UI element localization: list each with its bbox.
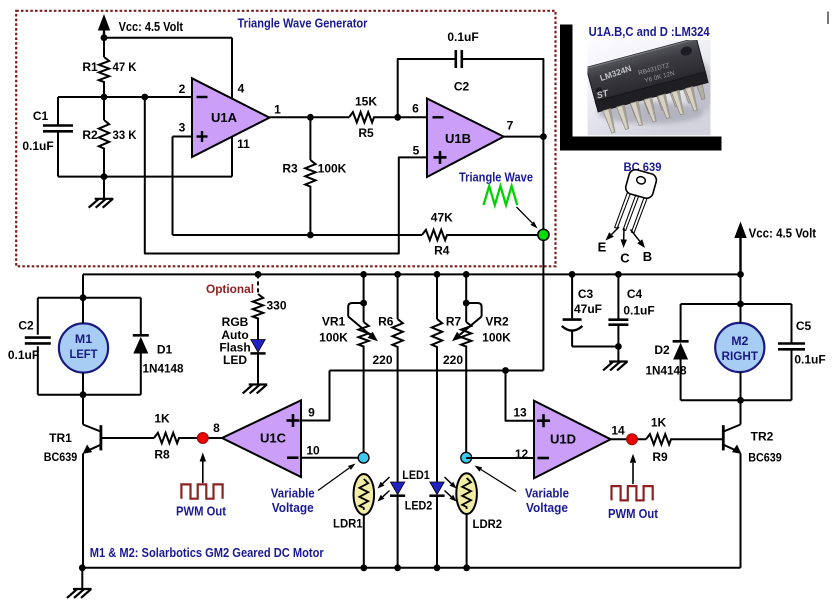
wire pin3 to feedback row — [173, 137, 193, 236]
svg-text:1N4148: 1N4148 — [143, 362, 184, 376]
svg-text:100K: 100K — [482, 331, 511, 345]
node 14 PWM (red) — [627, 434, 638, 445]
pin 8 — [213, 421, 220, 435]
node rail x=572.1 — [569, 271, 576, 278]
capacitor C2 0.1uF (feedback) — [398, 30, 544, 137]
node variable voltage left (cyan) — [358, 452, 369, 463]
diode D2 1N4148 — [646, 304, 689, 400]
svg-text:LDR1: LDR1 — [333, 517, 363, 531]
wire TR1 base — [101, 437, 222, 439]
label LED1 — [402, 468, 430, 482]
ground (C3/C4) — [604, 362, 627, 370]
svg-text:U1A.B,C and D :LM324: U1A.B,C and D :LM324 — [589, 24, 711, 39]
op-amp U1C — [222, 400, 301, 477]
node M1 top — [80, 294, 87, 301]
svg-text:E: E — [598, 240, 607, 255]
svg-text:R3: R3 — [282, 162, 298, 176]
node rail x=740.5 — [737, 271, 744, 278]
resistor R5 15K — [349, 95, 377, 141]
svg-text:220: 220 — [443, 353, 463, 367]
svg-text:220: 220 — [372, 353, 392, 367]
LDR1 — [354, 474, 375, 515]
svg-text:D1: D1 — [157, 343, 173, 357]
pin 3 — [179, 121, 186, 135]
svg-text:C2: C2 — [18, 318, 34, 332]
node pin7 — [540, 133, 547, 140]
svg-text:0.1uF: 0.1uF — [8, 348, 39, 362]
svg-text:Triangle Wave: Triangle Wave — [459, 171, 533, 185]
arrow to variable voltage node (right) — [475, 466, 517, 492]
node ground rail x=466.6 — [463, 564, 470, 571]
pin 5 — [413, 144, 420, 158]
svg-text:3: 3 — [179, 121, 186, 135]
pin 12 — [515, 447, 529, 461]
motor M1 LEFT — [59, 298, 108, 395]
wire optional dashed — [257, 274, 259, 294]
svg-text:LDR2: LDR2 — [473, 517, 503, 531]
resistor 330 — [253, 294, 287, 321]
node rail x=258 — [255, 271, 262, 278]
wire LDR1 bottom — [363, 515, 365, 568]
node variable voltage right (cyan) — [461, 452, 472, 463]
svg-text:U1D: U1D — [550, 432, 576, 447]
icon triangle wave (green) — [484, 186, 518, 205]
wire Vcc rail — [83, 273, 741, 275]
node Vcc/R1 — [101, 34, 108, 41]
svg-text:Variable: Variable — [271, 486, 315, 500]
node U1D pin13 tap — [502, 367, 509, 374]
svg-text:1: 1 — [274, 103, 281, 117]
arrow to variable voltage node (left) — [318, 464, 356, 491]
svg-text:R5: R5 — [358, 126, 374, 140]
op-amp U1A — [192, 78, 270, 157]
LDR2 — [456, 473, 477, 514]
svg-text:10: 10 — [306, 444, 320, 458]
svg-text:B: B — [643, 249, 652, 264]
node feedback tap — [141, 94, 148, 101]
icon PWM square wave (left) — [181, 484, 222, 498]
node rail x=437 — [434, 271, 441, 278]
node 8 PWM (red) — [197, 433, 208, 444]
svg-text:M1 & M2: Solarbotics GM2 Geare: M1 & M2: Solarbotics GM2 Geared DC Motor — [90, 546, 324, 560]
node rail x=466.2 — [463, 271, 470, 278]
pin 4 — [238, 82, 245, 96]
diode D1 1N4148 — [133, 298, 184, 395]
arrows into LDR2 — [445, 477, 457, 502]
arrows into LDR1 — [378, 477, 390, 502]
svg-text:C5: C5 — [796, 319, 812, 333]
svg-text:C3: C3 — [578, 287, 594, 301]
svg-text:0.1uF: 0.1uF — [22, 139, 53, 153]
transistor TR1 BC639 — [44, 395, 102, 568]
pin 10 — [306, 444, 320, 458]
svg-text:9: 9 — [308, 406, 315, 420]
wire M1 box top — [38, 297, 141, 299]
svg-text:14: 14 — [611, 424, 625, 438]
label LDR1 — [333, 517, 363, 531]
resistor R9 1K — [646, 415, 673, 464]
svg-text:R8: R8 — [154, 447, 170, 461]
wire ground run — [58, 176, 232, 178]
node ground rail x=363.8 — [360, 564, 367, 571]
label Triangle Wave — [459, 171, 533, 185]
svg-text:C2: C2 — [454, 80, 470, 94]
wire pin10 to LDR1 — [301, 457, 364, 459]
svg-text:6: 6 — [412, 102, 419, 116]
svg-text:TR2: TR2 — [751, 430, 774, 444]
svg-text:7: 7 — [507, 119, 514, 133]
IC photo (LM324 DIP-14) — [586, 38, 714, 135]
LED1 — [390, 482, 405, 568]
svg-text:Voltage: Voltage — [526, 501, 568, 515]
svg-text:C1: C1 — [33, 109, 49, 123]
potentiometer VR2 100K — [452, 274, 511, 457]
svg-text:R1: R1 — [82, 60, 98, 74]
potentiometer VR1 100K — [319, 274, 378, 457]
wire feedback to U1B pin5 — [145, 97, 427, 254]
svg-text:100K: 100K — [319, 331, 348, 345]
LED RGB auto flash — [250, 321, 265, 385]
resistor R7 220 — [432, 274, 464, 481]
node M2 top — [737, 301, 744, 308]
node M1 bottom — [80, 391, 87, 398]
svg-text:1K: 1K — [651, 415, 667, 429]
node triangle wave output (green) — [538, 229, 549, 240]
wire U1B output — [504, 137, 544, 371]
node rail x=363.6 — [360, 271, 367, 278]
black frame (photo) — [560, 25, 722, 151]
svg-text:M1: M1 — [75, 332, 92, 346]
svg-text:47K: 47K — [431, 211, 453, 225]
pin 1 — [274, 103, 281, 117]
pin 9 — [308, 406, 315, 420]
svg-text:VR2: VR2 — [485, 315, 509, 329]
node ground junction — [101, 173, 108, 180]
resistor R3 100K — [282, 117, 346, 235]
power Vcc 4.5V (left) — [98, 14, 184, 38]
node R3 bottom — [307, 232, 314, 239]
capacitor C4 0.1uF — [608, 274, 654, 361]
resistor R6 220 — [372, 274, 402, 481]
resistor R4 47K — [422, 211, 453, 258]
svg-text:LED2: LED2 — [405, 499, 433, 513]
resistor R1 47K — [82, 38, 136, 97]
icon PWM square wave (right) — [612, 486, 653, 500]
svg-text:5: 5 — [413, 144, 420, 158]
svg-text:VR1: VR1 — [322, 315, 346, 329]
node ground rail x=397.6 — [394, 564, 401, 571]
svg-text:33 K: 33 K — [113, 128, 137, 142]
transistor TR2 BC639 — [723, 400, 782, 568]
wire pin12 to LDR2 — [466, 457, 534, 459]
node C2/pin6 — [394, 114, 401, 121]
svg-text:TR1: TR1 — [49, 431, 72, 445]
svg-text:LEFT: LEFT — [70, 347, 98, 361]
svg-text:R4: R4 — [434, 244, 450, 258]
wire triangle wave row — [330, 370, 544, 372]
svg-text:Optional: Optional — [206, 282, 254, 296]
svg-text:0.1uF: 0.1uF — [623, 304, 654, 318]
svg-text:13: 13 — [513, 406, 527, 420]
svg-text:C: C — [620, 251, 630, 266]
label Variable Voltage (right) — [525, 486, 569, 515]
svg-text:BC639: BC639 — [44, 450, 78, 464]
svg-text:47uF: 47uF — [574, 302, 602, 316]
arrow to node 14 — [630, 454, 636, 484]
svg-text:Triangle Wave Generator: Triangle Wave Generator — [238, 16, 368, 31]
node rail x=397.6 — [394, 271, 401, 278]
svg-text:0.1uF: 0.1uF — [794, 353, 825, 367]
resistor R2 33K — [82, 97, 136, 177]
svg-text:330: 330 — [266, 299, 286, 313]
svg-text:47 K: 47 K — [113, 60, 137, 74]
resistor R8 1K — [154, 411, 181, 461]
svg-text:R6: R6 — [378, 315, 394, 329]
svg-text:D2: D2 — [654, 343, 670, 357]
svg-text:LED: LED — [223, 353, 247, 367]
pin 11 — [237, 137, 250, 151]
svg-text:8: 8 — [213, 421, 220, 435]
wire R4 row — [173, 234, 544, 236]
node C3/C4 — [615, 343, 622, 350]
svg-text:LED1: LED1 — [402, 468, 430, 482]
wire M2 box bottom — [681, 399, 792, 401]
node ground rail x=437 — [434, 564, 441, 571]
node ground rail x=82.3 — [79, 564, 86, 571]
op-amp U1D — [534, 401, 611, 479]
node M2 bottom — [737, 397, 744, 404]
label BC 639 — [624, 160, 662, 174]
svg-text:1N4148: 1N4148 — [646, 364, 687, 378]
wire M1 box bottom — [38, 394, 141, 396]
svg-text:Vcc: 4.5 Volt: Vcc: 4.5 Volt — [749, 226, 817, 241]
wire inverting input (pin2) — [58, 96, 192, 98]
svg-text:Vcc: 4.5 Volt: Vcc: 4.5 Volt — [119, 19, 184, 34]
arrow to node 8 — [200, 453, 207, 484]
label LED2 — [405, 499, 433, 513]
power Vcc 4.5V (right) — [734, 222, 816, 275]
svg-text:PWM Out: PWM Out — [176, 505, 227, 519]
wire Vcc to pin4 — [104, 38, 232, 99]
wire rail to M1 block — [82, 274, 84, 297]
pin 7 — [507, 119, 514, 133]
wire pin9 — [301, 371, 330, 421]
svg-text:U1B: U1B — [445, 131, 471, 146]
svg-text:4: 4 — [238, 82, 245, 96]
svg-text:R2: R2 — [82, 128, 98, 142]
label LDR2 — [473, 517, 503, 531]
label PWM Out (left) — [176, 505, 227, 519]
capacitor C2 0.1uF (across M1) — [8, 298, 51, 395]
wire Vcc to M2 — [740, 274, 742, 304]
svg-text:U1A: U1A — [211, 110, 238, 125]
svg-text:Voltage: Voltage — [272, 501, 314, 515]
transistor package BC639 (TO-92 drawing) — [614, 168, 657, 235]
title Triangle Wave Generator — [238, 16, 368, 31]
pin 14 — [611, 424, 625, 438]
wire pin11 to ground — [231, 137, 233, 177]
svg-text:M2: M2 — [731, 334, 748, 348]
svg-text:100K: 100K — [318, 162, 347, 176]
svg-text:11: 11 — [237, 137, 250, 151]
mark (top-right artifact) — [827, 12, 829, 25]
label motors note — [90, 546, 324, 560]
node rail x=618.4 — [615, 271, 622, 278]
svg-text:1K: 1K — [154, 411, 170, 425]
arrow E lead — [598, 227, 619, 255]
capacitor C3 47uF — [562, 274, 619, 346]
dashed box: Triangle Wave Generator — [16, 11, 555, 266]
pin 13 — [513, 406, 527, 420]
capacitor C5 0.1uF — [778, 304, 826, 400]
ground (bottom left) — [68, 568, 91, 597]
svg-text:0.1uF: 0.1uF — [447, 30, 478, 44]
svg-text:R7: R7 — [446, 315, 462, 329]
wire ground rail — [82, 567, 740, 569]
svg-text:U1C: U1C — [260, 431, 287, 446]
label Optional — [206, 282, 254, 296]
op-amp U1B — [427, 99, 504, 178]
svg-text:2: 2 — [179, 82, 186, 96]
ground (RGB LED) — [244, 385, 267, 393]
capacitor C1 0.1uF — [22, 97, 73, 177]
pin 6 — [412, 102, 419, 116]
node R1/R2/C1 — [101, 94, 108, 101]
wire LDR2 bottom — [466, 514, 468, 568]
svg-text:15K: 15K — [355, 95, 377, 109]
wire pin13 — [506, 371, 535, 421]
wire M2 box top — [681, 303, 792, 305]
LED2 — [429, 482, 444, 568]
wire U1A out to U1B pin6 — [270, 116, 428, 118]
label Variable Voltage (left) — [271, 486, 315, 515]
svg-text:R9: R9 — [652, 450, 668, 464]
wire U1D output — [611, 438, 724, 440]
label RGB Auto Flash LED — [219, 315, 250, 367]
svg-text:Variable: Variable — [525, 486, 569, 500]
arrow C lead — [620, 228, 630, 266]
motor M2 RIGHT — [715, 304, 764, 400]
arrow to triangle output node — [517, 207, 538, 229]
svg-text:BC639: BC639 — [748, 451, 782, 465]
svg-text:PWM Out: PWM Out — [608, 507, 659, 521]
ground (under R2) — [90, 177, 113, 207]
node R3 tap — [307, 114, 314, 121]
label PWM Out (right) — [608, 507, 659, 521]
arrow B lead — [631, 230, 653, 265]
pin 2 — [179, 82, 186, 96]
svg-text:C4: C4 — [627, 287, 643, 301]
svg-text:RIGHT: RIGHT — [722, 349, 759, 363]
label U1A,B,C and D : LM324 — [589, 24, 711, 39]
